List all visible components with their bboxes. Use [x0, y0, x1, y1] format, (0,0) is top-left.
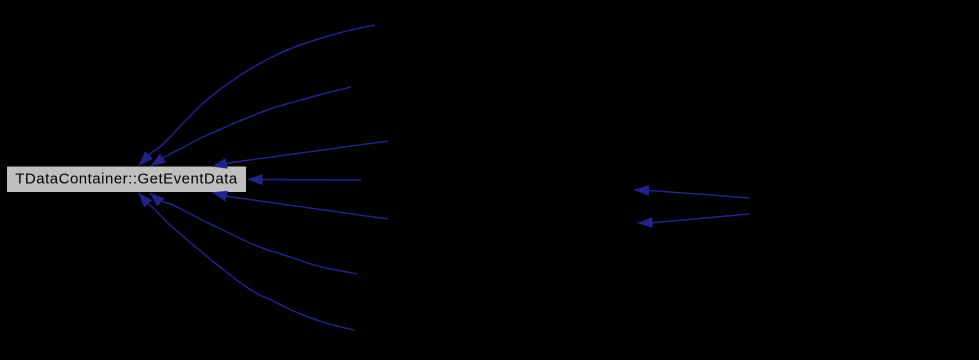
- edge 2: caller arrow, inner top curve into node top edge: [151, 87, 351, 166]
- edge 4: caller arrow, horizontal into node right edge: [248, 179, 361, 182]
- edge 5: caller arrow, lower straight diagonal into node bottom-right: [213, 193, 389, 220]
- edge 3: caller arrow, upper straight diagonal into node top-right: [213, 141, 389, 167]
- edge 1: caller arrow, outer top curve into node top edge: [139, 25, 375, 166]
- svg-text:TDataContainer::GetEventData: TDataContainer::GetEventData: [15, 171, 238, 188]
- node TDataContainer::GetEventData (current function, grey): [7, 166, 247, 193]
- edge 6: caller arrow, inner bottom curve into node bottom edge: [150, 193, 357, 274]
- edge 7: caller arrow, outer bottom curve into node bottom edge: [139, 193, 354, 330]
- edge 9: lower arrow into hidden middle node (right cluster): [638, 214, 750, 223]
- edge 8: upper arrow into hidden middle node (right cluster): [635, 190, 751, 198]
